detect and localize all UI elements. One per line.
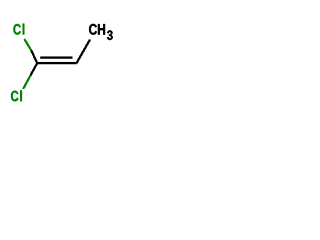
- label Cl1 top-left chlorine text: [13, 24, 24, 35]
- label Cl2 bottom-left chlorine text: [11, 90, 22, 101]
- label subscript 3 of CH3: [107, 30, 113, 40]
- bond C1=C2 double bond main line: [36, 62, 76, 64]
- label CH of methyl group: [89, 24, 105, 35]
- bond C1-Cl2 green half (chlorine side): [23, 75, 31, 89]
- bond C1-Cl1 black half (carbon side): [31, 51, 37, 64]
- bond C1-Cl2 black half (carbon side): [31, 63, 38, 75]
- background: [0, 0, 130, 130]
- bond C1=C2 double bond inner line: [40, 56, 72, 58]
- bond C2-C3 (to methyl): [76, 40, 90, 64]
- bond C1-Cl1 green half (chlorine side): [24, 39, 31, 51]
